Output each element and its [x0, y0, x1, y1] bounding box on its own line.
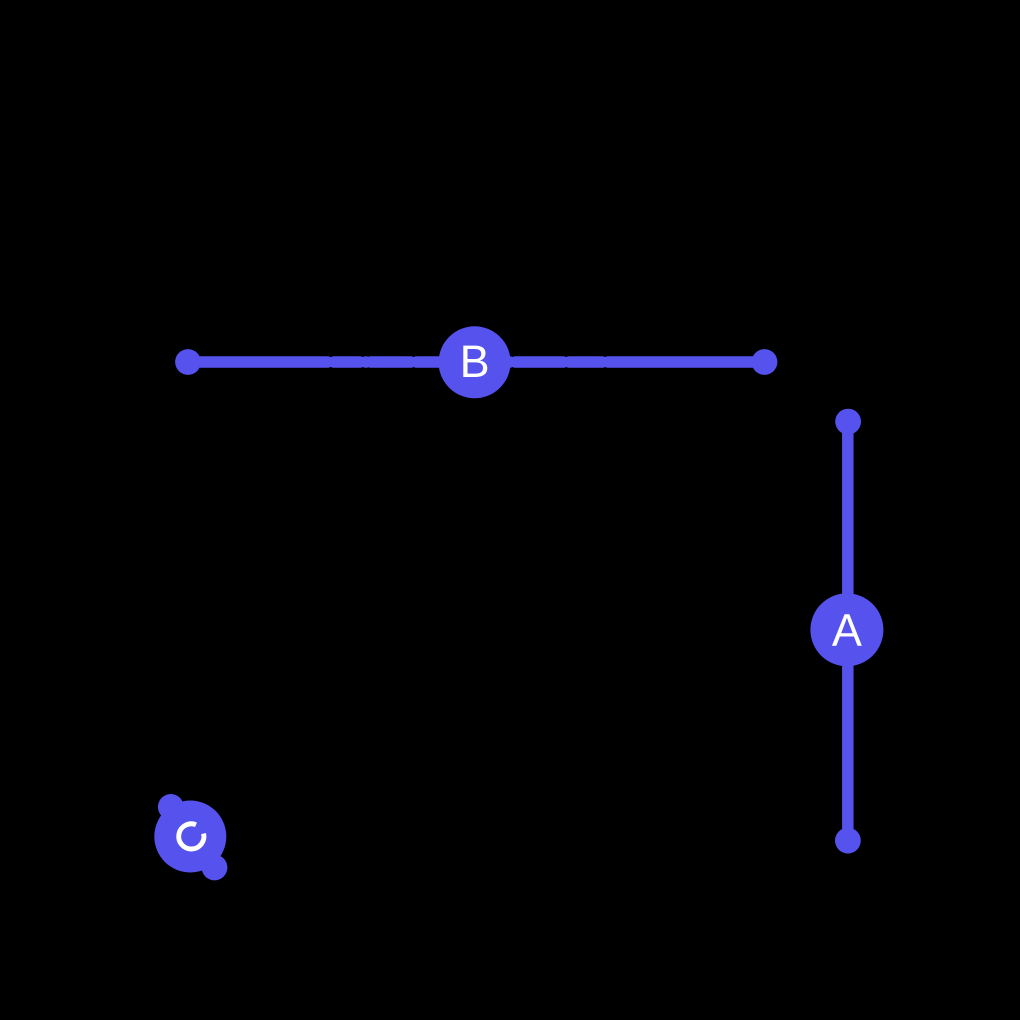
segment C first endpoint dot: [158, 794, 184, 820]
segment A wire: [842, 422, 854, 841]
label C glyph (ring arc): [179, 824, 204, 849]
label A circle: [810, 593, 883, 666]
label B circle: [439, 326, 511, 398]
svg-text:B: B: [460, 336, 490, 387]
segment C wire (collapsed short segment): [171, 807, 215, 868]
segment C second endpoint dot: [202, 855, 228, 881]
segment B wire (dashed middle portion): [188, 356, 765, 368]
segment B right endpoint dot: [752, 349, 778, 375]
svg-text:A: A: [832, 605, 862, 656]
label C circle: [154, 801, 226, 873]
segment A bottom endpoint dot: [835, 828, 861, 854]
segment B left endpoint dot: [175, 349, 201, 375]
segment A top endpoint dot: [835, 409, 861, 435]
